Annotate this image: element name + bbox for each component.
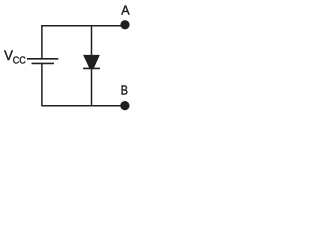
wire diode branch anode (top rail to diode) [91, 26, 93, 56]
svg-text:A: A [121, 3, 130, 18]
wire bottom rail (battery - to node B) [41, 105, 122, 107]
svg-text:B: B [121, 82, 129, 97]
diode D1 triangle (anode, pointing down) [83, 55, 100, 69]
node A terminal dot [120, 20, 129, 29]
node B terminal dot [120, 101, 129, 110]
diode D1 cathode bar [83, 67, 100, 69]
wire left branch lower (battery - down to bottom rail) [41, 64, 43, 106]
battery VCC short plate (-) [32, 62, 55, 64]
wire left branch upper (top rail down to battery) [41, 25, 43, 58]
battery VCC long plate (+) [27, 58, 58, 60]
wire diode branch cathode (diode to bottom rail) [91, 68, 93, 105]
svg-text:CC: CC [13, 56, 26, 67]
wire top rail (battery + to node A) [42, 25, 123, 27]
svg-text:V: V [4, 48, 13, 63]
